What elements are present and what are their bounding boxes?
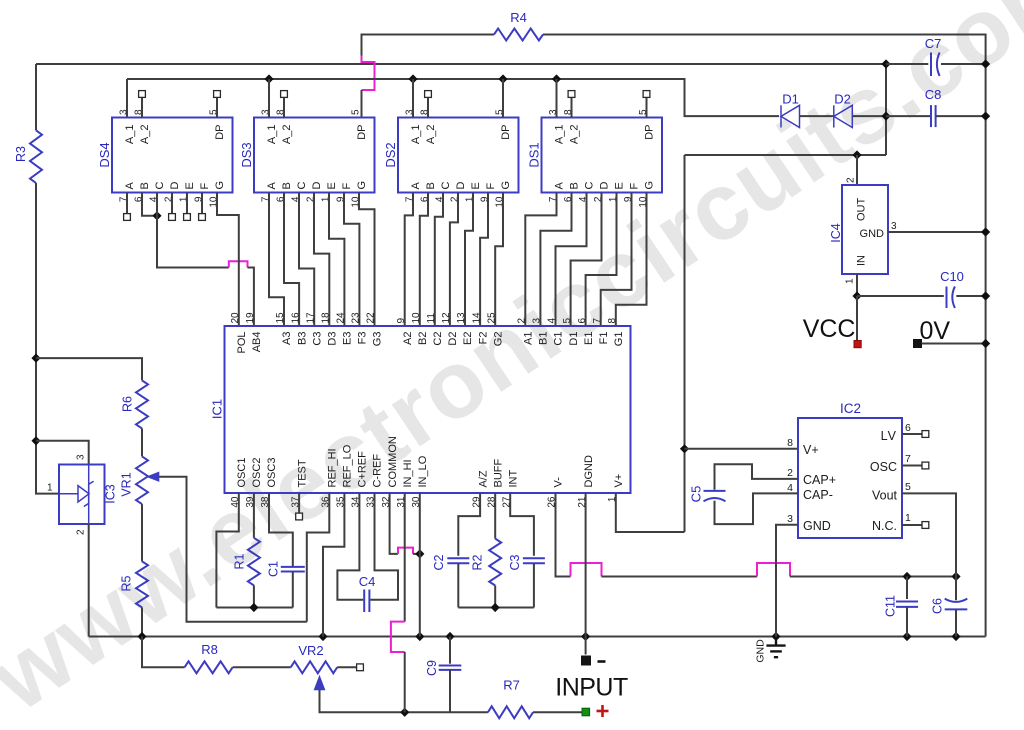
svg-text:V-: V- — [553, 477, 565, 488]
junction bus R5 — [137, 632, 146, 641]
wire V+ node vertical — [684, 155, 686, 532]
svg-text:A: A — [554, 182, 566, 190]
capacitor C4 — [364, 590, 369, 613]
svg-text:18: 18 — [321, 312, 332, 324]
svg-text:12: 12 — [441, 312, 452, 324]
svg-text:G: G — [356, 181, 368, 190]
svg-text:C: C — [584, 182, 596, 190]
wire DS1 E to IC1 — [586, 193, 617, 327]
svg-text:REF_HI: REF_HI — [327, 448, 339, 487]
wire IN_HI to input rail — [404, 652, 406, 712]
display DS1 box — [542, 118, 663, 193]
svg-text:IC3: IC3 — [104, 484, 118, 504]
wire DS3 pin8 stub — [283, 97, 285, 117]
capacitor C2 — [447, 558, 469, 563]
svg-text:F3: F3 — [357, 332, 369, 345]
svg-text:D1: D1 — [782, 92, 799, 107]
wire DS4 DP stub — [216, 97, 218, 117]
resistor R2 — [489, 539, 501, 586]
IC2 box — [798, 418, 902, 538]
VR2 wiper arrow — [314, 676, 324, 690]
svg-text:E2: E2 — [462, 332, 474, 345]
terminal DS4 DP — [214, 91, 221, 98]
junction 0V right rail — [981, 339, 990, 348]
svg-text:23: 23 — [351, 312, 362, 324]
wire C9 bottom — [449, 670, 451, 712]
wire C7 left — [886, 63, 928, 65]
svg-text:2: 2 — [787, 467, 793, 479]
wire R3 top — [35, 64, 37, 130]
svg-text:OSC: OSC — [870, 460, 897, 474]
wire R6 to VR1 — [141, 428, 143, 456]
wire R2 to rail — [494, 586, 496, 608]
wire C11 top — [906, 577, 908, 600]
junction bus REF_LO — [318, 632, 327, 641]
wire IN_HI down — [404, 493, 406, 622]
wire hop AB4 over POL — [229, 261, 248, 267]
svg-text:A_1: A_1 — [410, 125, 422, 145]
wire IC3 pin2 to bus — [88, 524, 90, 637]
svg-text:D: D — [455, 182, 467, 190]
wire DS3 C to IC1 — [299, 193, 314, 327]
svg-text:B2: B2 — [417, 332, 429, 345]
svg-text:A3: A3 — [281, 332, 293, 345]
wire IC2 NC stub — [902, 524, 922, 526]
junction left rail R6 tap — [31, 354, 40, 363]
wire DS1 C to IC1 — [556, 193, 587, 327]
wire DS2 G to IC1 — [495, 193, 503, 327]
junction IC4 OUT node — [852, 150, 861, 159]
wire C-REF to C4 — [370, 493, 398, 600]
wire VR2 wiper to input rail — [320, 690, 488, 713]
svg-text:REF_LO: REF_LO — [342, 444, 354, 487]
svg-text:C8: C8 — [925, 87, 942, 102]
wire C2 to rail — [457, 563, 459, 607]
svg-text:D3: D3 — [327, 332, 339, 346]
svg-text:D2: D2 — [447, 332, 459, 346]
svg-text:IN_HI: IN_HI — [402, 459, 414, 487]
svg-text:25: 25 — [486, 312, 497, 324]
svg-text:G2: G2 — [492, 332, 504, 347]
svg-text:R3: R3 — [14, 146, 28, 162]
junction OSC rail R1 — [249, 603, 258, 612]
wire C6 bottom — [955, 609, 957, 636]
svg-text:A_2: A_2 — [425, 125, 437, 145]
wire DS4 B to C — [142, 193, 157, 216]
svg-text:3: 3 — [787, 513, 793, 525]
wire DS1 pin3 stub — [556, 79, 558, 118]
svg-text:A_1: A_1 — [554, 125, 566, 145]
wire C11 bottom — [906, 607, 908, 637]
svg-text:E: E — [326, 182, 338, 189]
wire C9 top — [449, 637, 451, 664]
svg-text:6: 6 — [905, 422, 911, 434]
svg-text:B: B — [569, 182, 581, 189]
svg-text:3: 3 — [891, 221, 897, 232]
svg-text:A_1: A_1 — [266, 125, 278, 145]
resistor R1 — [248, 538, 260, 586]
potentiometer VR2 — [291, 661, 338, 673]
svg-text:16: 16 — [290, 312, 301, 324]
svg-text:R5: R5 — [120, 575, 134, 591]
IC1 box — [225, 326, 631, 493]
wire DS4 D stub — [171, 193, 173, 214]
resistor R5 — [136, 561, 148, 607]
svg-text:F: F — [629, 183, 641, 190]
junction DS2 DP on bus — [498, 74, 507, 83]
wire C8 right — [936, 115, 986, 117]
svg-text:3: 3 — [76, 454, 87, 460]
svg-text:DP: DP — [644, 125, 656, 140]
svg-text:G: G — [500, 181, 512, 190]
capacitor C11 — [896, 602, 918, 607]
junction IC4 GND right rail — [981, 227, 990, 236]
svg-text:DS2: DS2 — [383, 142, 398, 167]
wire hop V- over GND wire — [757, 563, 790, 577]
svg-text:C5: C5 — [689, 486, 704, 503]
junction V- Vout — [951, 572, 960, 581]
wire DS4 E stub — [186, 193, 188, 214]
wire DS2 D to IC1 — [450, 193, 458, 327]
svg-text:D: D — [311, 182, 323, 190]
svg-text:17: 17 — [305, 312, 316, 324]
svg-text:D: D — [169, 182, 181, 190]
svg-text:C+REF: C+REF — [357, 451, 369, 488]
svg-text:R7: R7 — [503, 678, 520, 693]
wire REF_HI down — [307, 493, 330, 622]
wire DS2 pin8 stub — [427, 97, 429, 117]
zener diode inside IC3 — [59, 465, 94, 525]
wire R7 to input plus — [533, 711, 582, 713]
ground symbol — [766, 637, 785, 658]
wire bus to R8 — [142, 637, 185, 668]
wire DS1 A to IC1 — [525, 193, 556, 327]
resistor R6 — [136, 380, 148, 428]
svg-text:G: G — [644, 181, 656, 190]
junction VCC node — [852, 291, 861, 300]
svg-text:V+: V+ — [803, 443, 819, 457]
svg-text:C11: C11 — [884, 595, 898, 617]
svg-text:DP: DP — [214, 125, 226, 140]
svg-text:R2: R2 — [471, 554, 485, 570]
svg-text:OSC2: OSC2 — [251, 458, 263, 488]
wire DS4 G to IC1 pin20 — [217, 193, 239, 327]
display DS4 box — [112, 118, 233, 193]
svg-text:DGND: DGND — [583, 455, 595, 487]
wire left rail R3 to IC3 — [36, 183, 59, 494]
svg-text:A_1: A_1 — [124, 125, 136, 145]
svg-text:E1: E1 — [583, 332, 595, 345]
svg-text:IN: IN — [856, 255, 868, 266]
svg-text:3: 3 — [119, 109, 130, 115]
svg-text:14: 14 — [471, 312, 482, 324]
wire C5 to CAP- — [715, 493, 799, 524]
svg-text:B: B — [139, 182, 151, 189]
wire top bus to C7 — [36, 63, 886, 65]
terminal TEST — [296, 513, 303, 520]
svg-text:R8: R8 — [201, 642, 218, 657]
junction V- C11 — [902, 572, 911, 581]
svg-text:E: E — [184, 182, 196, 189]
wire REF_LO to bus — [323, 493, 344, 637]
svg-text:A/Z: A/Z — [477, 470, 489, 487]
svg-text:BUFF: BUFF — [492, 458, 504, 487]
junction left rail IC3 pin3 tap — [31, 436, 40, 445]
svg-text:D1: D1 — [568, 332, 580, 346]
wire OSC2 to R1 — [253, 493, 255, 538]
svg-text:2: 2 — [517, 318, 528, 324]
wire R4 left — [362, 35, 495, 56]
svg-text:DP: DP — [356, 125, 368, 140]
wire C7 right — [941, 63, 986, 65]
wire R1 to rail — [253, 585, 255, 607]
resistor R4 — [494, 29, 543, 41]
svg-text:D: D — [599, 182, 611, 190]
svg-text:CAP+: CAP+ — [803, 473, 836, 487]
junction DS2 pin3 on bus — [408, 74, 417, 83]
svg-text:B: B — [425, 182, 437, 189]
terminal DS4 D — [169, 214, 176, 221]
svg-text:F1: F1 — [598, 332, 610, 345]
svg-text:10: 10 — [411, 312, 422, 324]
svg-text:R6: R6 — [121, 396, 135, 412]
junction AZ rail R2 — [491, 603, 500, 612]
terminal INPUT minus square — [582, 656, 591, 665]
wire AZ rail — [458, 607, 534, 609]
wire hop IN_HI over bottom bus — [391, 622, 405, 652]
svg-text:13: 13 — [456, 312, 467, 324]
svg-text:C1: C1 — [553, 332, 565, 346]
svg-text:C3: C3 — [311, 332, 323, 346]
svg-text:IN_LO: IN_LO — [417, 455, 429, 487]
wire IC2 GND to bus — [776, 525, 798, 637]
svg-text:F: F — [485, 183, 497, 190]
svg-text:5: 5 — [562, 318, 573, 324]
wire bottom bus — [89, 636, 986, 638]
svg-text:R4: R4 — [510, 10, 527, 25]
svg-text:DS1: DS1 — [527, 142, 542, 167]
junction DS1 pin3 on bus — [552, 74, 561, 83]
wire DS3 G to IC1 — [359, 193, 375, 327]
svg-text:9: 9 — [396, 318, 407, 324]
wire COMMON down — [390, 493, 398, 554]
wire C7 C8 node vertical — [885, 64, 887, 155]
svg-text:15: 15 — [275, 312, 286, 324]
svg-text:1: 1 — [845, 278, 856, 284]
svg-text:7: 7 — [905, 453, 911, 465]
wire C3 to rail — [533, 563, 535, 607]
svg-text:DP: DP — [500, 125, 512, 140]
wire V- down — [556, 493, 571, 577]
wire DS4 F stub — [201, 193, 203, 214]
wire DS1 F to IC1 — [601, 193, 632, 327]
svg-text:GND: GND — [755, 639, 767, 663]
svg-text:B1: B1 — [538, 332, 550, 345]
junction input rail IN_HI — [400, 708, 409, 717]
wire OSC1 loop — [216, 493, 238, 608]
svg-text:OUT: OUT — [856, 198, 868, 222]
diode D2 — [834, 105, 853, 127]
svg-text:A: A — [410, 182, 422, 190]
svg-text:Vout: Vout — [872, 489, 898, 503]
label input minus sign — [598, 660, 606, 663]
wire VR1 wiper to REF_HI — [159, 477, 307, 622]
terminal VR2 — [357, 664, 364, 671]
svg-text:2: 2 — [76, 529, 87, 535]
capacitor C8 — [931, 105, 936, 127]
wire DS1 DP stub — [646, 97, 648, 117]
svg-text:F: F — [341, 183, 353, 190]
wire VR1 to R5 — [141, 504, 143, 561]
wire DS3 DP stub — [361, 90, 363, 118]
svg-text:20: 20 — [230, 312, 241, 324]
wire hop COMMON over IN_HI — [398, 548, 413, 554]
svg-text:VCC: VCC — [803, 315, 856, 343]
terminal IC2 OSC — [922, 462, 929, 469]
svg-text:IC4: IC4 — [829, 223, 843, 243]
svg-text:GND: GND — [860, 228, 885, 240]
wire C10 right — [956, 295, 985, 297]
wire VCC down — [856, 296, 858, 341]
svg-text:GND: GND — [803, 519, 831, 533]
resistor R7 — [488, 706, 533, 718]
wire IC2 OSC stub — [902, 465, 922, 467]
wire IN_LO to bus — [419, 493, 421, 637]
wire to IC1 pin19 — [248, 268, 254, 327]
svg-text:D2: D2 — [834, 92, 851, 107]
svg-text:4: 4 — [787, 482, 793, 494]
junction bus IN_LO — [415, 632, 424, 641]
junction bus C9 — [445, 632, 454, 641]
wire IC3 pin3 tap — [36, 441, 89, 465]
svg-text:DS3: DS3 — [239, 142, 254, 167]
svg-text:2: 2 — [846, 177, 857, 183]
svg-text:8: 8 — [787, 437, 793, 449]
wire V- mid — [602, 576, 758, 578]
svg-text:B: B — [281, 182, 293, 189]
svg-text:IC1: IC1 — [210, 399, 225, 419]
wire BUFF to R2 — [494, 493, 496, 539]
wire DS2 E to IC1 — [465, 193, 473, 327]
junction C8 right rail — [981, 112, 990, 121]
svg-text:C4: C4 — [359, 574, 376, 589]
wire A/Z to C2 — [458, 493, 480, 556]
svg-text:G1: G1 — [613, 332, 625, 347]
wire CAP+ to C5 — [715, 464, 799, 490]
svg-text:F2: F2 — [477, 332, 489, 345]
svg-text:VR1: VR1 — [120, 472, 134, 496]
VR1 wiper arrow — [147, 472, 159, 481]
capacitor C10 — [947, 287, 955, 309]
svg-text:C6: C6 — [931, 598, 945, 614]
svg-text:TEST: TEST — [296, 459, 308, 487]
junction bus DGND — [581, 632, 590, 641]
svg-text:IC2: IC2 — [840, 401, 861, 416]
svg-text:C10: C10 — [940, 269, 964, 284]
wire Vout to V- line — [902, 493, 956, 576]
capacitor C1 — [281, 567, 305, 572]
wire TEST stub — [298, 493, 300, 513]
wire DS1 pin8 stub — [571, 97, 573, 117]
wire display bus — [127, 79, 779, 118]
svg-text:A_2: A_2 — [281, 125, 293, 145]
svg-text:E: E — [614, 182, 626, 189]
junction node at diode line — [881, 112, 890, 121]
wire DS2 DP stub — [502, 79, 504, 118]
terminal IC2 LV — [922, 431, 929, 438]
wire R5 to bus — [141, 607, 143, 636]
wire D2 to node — [852, 115, 886, 117]
svg-text:G3: G3 — [372, 332, 384, 347]
wire 0V to right rail — [922, 343, 986, 345]
wire R4 right to right rail — [543, 35, 986, 637]
wire DS1 B to IC1 — [540, 193, 571, 327]
display DS2 box — [398, 118, 519, 193]
wire V+ to IC2 — [685, 448, 799, 450]
svg-text:CAP-: CAP- — [803, 488, 833, 502]
svg-text:11: 11 — [426, 313, 437, 324]
svg-text:C9: C9 — [425, 660, 439, 676]
wire DGND down — [585, 493, 587, 655]
svg-text:F: F — [199, 183, 211, 190]
wire DS3 B to IC1 — [284, 193, 299, 327]
wire DS3 A to IC1 — [269, 193, 284, 327]
svg-text:INT: INT — [507, 470, 519, 488]
svg-text:C3: C3 — [508, 554, 522, 570]
wire reg output line — [685, 154, 887, 156]
wire IC2 LV stub — [902, 433, 922, 435]
wire DS2 F to IC1 — [480, 193, 488, 327]
svg-text:0V: 0V — [920, 317, 951, 345]
capacitor C5 — [704, 491, 726, 501]
wire R8 to VR2 — [233, 666, 291, 668]
svg-text:A: A — [266, 182, 278, 190]
wire DS3 D to IC1 — [314, 193, 329, 327]
wire DS3 pin3 stub — [268, 79, 270, 118]
wire DS2 B to IC1 — [420, 193, 428, 327]
svg-text:A1: A1 — [523, 332, 535, 345]
svg-text:E: E — [470, 182, 482, 189]
terminal DS4 pin8 — [139, 91, 146, 98]
svg-text:7: 7 — [592, 318, 603, 324]
wire COMMON to IN_LO — [413, 553, 420, 555]
junction node at C7 bus — [881, 59, 890, 68]
svg-text:1: 1 — [47, 483, 53, 494]
wire DS1 D to IC1 — [571, 193, 602, 327]
junction DS3 pin3 on bus — [264, 74, 273, 83]
junction bus GND symbol — [771, 632, 780, 641]
svg-text:1: 1 — [905, 512, 911, 524]
IC4 box — [842, 185, 888, 274]
svg-text:B3: B3 — [296, 332, 308, 345]
wire D1 to D2 — [800, 115, 834, 117]
junction bus C6 — [951, 632, 960, 641]
junction COMMON IN_LO — [415, 549, 424, 558]
wire DS2 C to IC1 — [435, 193, 443, 327]
terminal IC2 NC — [922, 522, 929, 529]
wire OSC3 to C1 — [269, 493, 293, 566]
wire DS3 E to IC1 — [329, 193, 344, 327]
svg-text:C2: C2 — [432, 554, 446, 570]
terminal DS2 pin8 — [425, 91, 432, 98]
svg-text:C: C — [296, 182, 308, 190]
svg-text:AB4: AB4 — [251, 332, 263, 353]
wire DS3 F to IC1 — [344, 193, 359, 327]
terminal 0V square — [914, 340, 922, 348]
terminal DS4 F — [199, 214, 206, 221]
svg-text:C: C — [154, 182, 166, 190]
svg-text:3: 3 — [532, 318, 543, 324]
